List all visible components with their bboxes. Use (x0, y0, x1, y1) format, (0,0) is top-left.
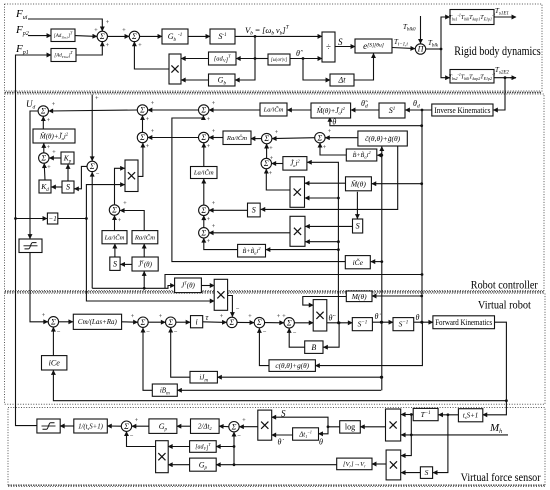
block Jtilde-T(theta) (132, 257, 158, 271)
svg-text:S: S (113, 259, 117, 268)
svg-text:+: + (207, 216, 211, 223)
summing junction SA (97, 31, 107, 41)
block M(theta) (346, 291, 372, 302)
svg-text:+: + (151, 100, 155, 107)
minus sf1 (130, 433, 242, 440)
input label T_blk0 (403, 23, 416, 33)
junctions on x234 (233, 445, 236, 466)
section title Robot controller (471, 277, 538, 291)
wire log branch down to dt1 inverse (319, 427, 329, 434)
block S right (353, 219, 363, 233)
wire theta from x422 into Mhat+J bottom (330, 117, 422, 125)
node label script S 2 (281, 409, 286, 419)
wire sum4c up to sum4b (203, 216, 205, 228)
block iCe 3 (42, 356, 67, 370)
wire x422 to Mhat(theta) (372, 183, 422, 185)
svg-text:+: + (151, 128, 155, 135)
wire x381 to iCe2 (371, 261, 382, 263)
junction after -1 (85, 217, 88, 220)
svg-text:Σ: Σ (40, 107, 46, 116)
block La/iCm 2 (102, 231, 127, 244)
block Gp 2 (190, 458, 217, 471)
block JT(theta) (175, 278, 202, 293)
wire S-1 to divide block, node Vb (235, 35, 322, 37)
block delta t (330, 74, 354, 86)
hatch band between robot controller and virtual robot (5, 291, 545, 293)
svg-text:+: + (47, 117, 51, 124)
wire vertical T-inv junction down to X f4 upper (401, 415, 411, 456)
wire La/iCm to sum r1c (209, 109, 260, 111)
svg-text:i: i (195, 317, 197, 326)
svg-text:+: + (106, 19, 110, 26)
wire force feedback: sat2 out, left vertical up to F_p1 into Ad2 (16, 55, 52, 426)
node label T_blk (428, 39, 439, 49)
junction theta-dd x339 (338, 321, 341, 324)
wire Ra/iCm1 to sum r2c (209, 137, 223, 139)
wire Gp2 to X f2 (168, 464, 189, 466)
plus sv3 (159, 313, 163, 320)
wire H288 to JT(theta) (92, 286, 174, 289)
svg-text:−: − (96, 171, 100, 178)
wire sum4 up to X2 upper input (115, 168, 125, 204)
block iCe 2 (345, 256, 370, 269)
block T inverse (413, 408, 438, 420)
svg-text:+: + (242, 417, 246, 424)
wire H390 to iBm (177, 389, 381, 391)
wire X2 out to sum r2b bottom (138, 143, 143, 176)
wire branch to delta-t (303, 59, 330, 81)
summing junction v2 (138, 317, 148, 327)
wire Tblk down to transform block 2 (441, 49, 450, 78)
plus sf2 (242, 417, 246, 424)
plus r2d (269, 129, 279, 152)
svg-text:Inverse Kinematics: Inverse Kinematics (434, 105, 490, 115)
svg-text:Σ: Σ (200, 133, 206, 142)
section title Virtual robot (478, 298, 532, 312)
wire S f to X f4 lower (401, 472, 420, 474)
wire tf1 to saturation 2 (60, 425, 74, 427)
wire sum f2 to 2/dt2 (219, 425, 229, 428)
gain block Kd (39, 180, 51, 193)
hatch band between rigid body dynamics and robot controller (5, 92, 543, 94)
wire B+B2 to sum4c bottom (204, 238, 238, 249)
wire sum 2a up to M+J block (43, 143, 45, 152)
svg-text:iČe: iČe (353, 257, 364, 267)
wire x381 to B+B upper block (377, 154, 381, 156)
wire Cm/(Las+Ra) to sum v2 (122, 321, 138, 323)
node label theta-dot s3 (375, 312, 382, 321)
block Ra/iCm 1 (223, 131, 251, 145)
wire top into sum3 (91, 95, 93, 161)
wire Vb branch to Gb (235, 59, 255, 81)
wire X4 left out to sum4c (209, 232, 290, 234)
wire sum v4 to sum v5 (237, 321, 254, 323)
junction FK line at H400 (505, 399, 508, 402)
svg-text:Σ: Σ (200, 106, 206, 115)
block -1 (47, 213, 57, 224)
wire S-1a to S-1b theta-dot node (372, 321, 393, 323)
svg-text:Σ: Σ (200, 228, 206, 237)
plus signs at SA (94, 19, 110, 49)
svg-text:+: + (146, 116, 150, 123)
wire sum f1 to tf1 (107, 425, 121, 427)
section frame: Rigid body dynamics boundary (5, 4, 543, 91)
wire c+g to sum v5 bottom (259, 328, 269, 365)
exponential map block e^[S][thu] (355, 39, 392, 53)
transform product block T_s2E2 (449, 70, 496, 84)
block omega-or-v selector (268, 54, 290, 65)
svg-text:M̂(θ): M̂(θ) (350, 178, 366, 188)
block La/iCm mid (191, 167, 218, 179)
svg-text:+: + (212, 100, 216, 107)
svg-text:S: S (252, 206, 256, 215)
wire i block to sum v4 (203, 321, 227, 324)
svg-text:Σ: Σ (231, 422, 237, 431)
block iJm (190, 371, 217, 383)
wire x338 branch to X4 lower (305, 241, 338, 243)
svg-text:−1: −1 (48, 215, 56, 223)
plus r2c (207, 128, 216, 150)
minus sv5 (263, 313, 281, 336)
svg-text:iCe: iCe (49, 359, 61, 368)
junction x381 at 377 (380, 376, 383, 379)
wire Tblk up to transform block 1 (441, 17, 450, 49)
summing junction v4 (227, 317, 237, 327)
svg-text:S: S (356, 222, 360, 231)
plus at SB left (122, 27, 142, 49)
svg-text:Ra/iČm: Ra/iČm (226, 134, 247, 142)
block c(theta,thetadot)+g(theta) hat (358, 131, 407, 146)
svg-text:+: + (207, 238, 211, 245)
junction theta-hat node (302, 57, 305, 60)
summing junction 4c (199, 228, 209, 238)
wire theta-dot H377 to iJm (217, 376, 381, 378)
output label T_s2E2 (495, 66, 509, 76)
wire sum v1 to Cm block (59, 321, 73, 323)
svg-text:S: S (425, 468, 429, 477)
block log (340, 421, 361, 433)
wire T_s2E2 output (494, 77, 516, 79)
wire iCe2 output loop up into sum r1c bottom (172, 116, 345, 262)
block Mtilde(theta)+Ja i2 (33, 129, 75, 143)
node label theta top (332, 118, 336, 127)
wire S right to X4 (305, 225, 352, 227)
summing junction f2 (229, 422, 239, 432)
svg-text:−: − (57, 329, 61, 336)
svg-text:+: + (275, 129, 279, 136)
node label T_i-1,i (394, 38, 408, 48)
block S derivative a (62, 181, 74, 193)
block iBm (152, 384, 177, 396)
block B (305, 341, 323, 354)
junction feeding Jtilde (143, 287, 146, 290)
arrowhead Ts2E2 out (510, 77, 516, 79)
svg-text:+: + (52, 101, 56, 108)
wire B box to sum v6 bottom (289, 328, 305, 347)
svg-text:+: + (95, 95, 99, 102)
summing junction r1c (199, 105, 209, 115)
summing junction 4 (109, 205, 119, 215)
wire saturation to sum v1 (30, 253, 48, 322)
wire x338 branch to B+B2 block (266, 249, 339, 251)
section title Virtual force sensor (461, 470, 541, 484)
wire M(theta) loop into X6 upper (303, 297, 347, 306)
block i (191, 316, 203, 328)
svg-text:Σ: Σ (263, 134, 269, 143)
svg-text:+: + (269, 145, 273, 152)
svg-text:θ: θ (332, 118, 336, 127)
wire S small up to La/iCm 2 (114, 244, 116, 257)
block S mid (248, 203, 261, 217)
svg-text:c(θ,θ̇)+g(θ): c(θ,θ̇)+g(θ) (275, 362, 309, 370)
block S-1 integrator a (352, 318, 372, 331)
wire junction up to X2 lower input (86, 185, 124, 219)
wire sum v5 to sum v6 (265, 322, 284, 324)
block G_b inverse (162, 29, 188, 44)
wire La/iCm2 up to sum4 (114, 216, 116, 231)
svg-text:−: − (293, 330, 297, 337)
block Ra/iCm 2 (132, 231, 158, 244)
wire M+J block up into Ud sum (42, 117, 44, 129)
plus sv2 (131, 313, 135, 320)
junction x422 at y274 (421, 273, 424, 276)
wire X f1 to sum f2 (239, 426, 257, 428)
wire S1 to Mhat+J block (351, 109, 379, 111)
wire X f3 to log (360, 426, 385, 428)
svg-text:+: + (212, 223, 216, 230)
svg-text:S: S (281, 409, 286, 419)
block La/iCm 1 (260, 103, 287, 116)
transform block Ad_Tbs1 transpose (51, 29, 75, 42)
wire X1 to SB bottom (134, 42, 169, 69)
wire theta line up into sum3 bottom (91, 172, 93, 288)
plus s4b (207, 200, 216, 223)
wire T_s1E1 output (494, 16, 516, 18)
wire adV to multiplier X1 (181, 58, 208, 60)
wire 2/dt2 to Gp1 (177, 425, 191, 427)
summing junction v3 (166, 317, 176, 327)
wire Gp1 to sum f1 (132, 425, 149, 427)
block tsS+1 (458, 409, 482, 422)
wire theta vertical x422 (421, 110, 423, 322)
section frame: Robot controller boundary (5, 94, 545, 291)
wire IK to S1 block, node theta_d (405, 109, 431, 111)
plus s2a (47, 144, 57, 171)
output label T_s1E1 (495, 7, 509, 17)
plus smid (270, 155, 274, 162)
block S1 (379, 103, 405, 118)
node label theta s3 (416, 313, 420, 322)
wire T_blk0 into PI top (420, 16, 422, 43)
wire c+g block to sum r2e (325, 137, 358, 139)
plus s4c (207, 223, 216, 245)
svg-text:Σ: Σ (167, 318, 173, 327)
block 2/dt2 (191, 419, 220, 434)
wire Vb down to adV (236, 36, 255, 58)
summing junction 2a (39, 153, 49, 163)
node label theta-ddot (329, 314, 336, 323)
svg-text:+: + (328, 128, 332, 135)
wire S-1b to Forward Kinematics theta node (414, 321, 433, 323)
wire X6 out to S-1 a (327, 322, 353, 324)
gain block Kp (61, 152, 74, 164)
wire Jtilde-T to S small (121, 263, 133, 265)
node Tblk (440, 48, 443, 51)
block c(theta,thetadot)+g(theta) (269, 360, 315, 372)
block S inverse integrator (210, 29, 235, 44)
svg-text:+: + (323, 144, 327, 151)
svg-text:Σ: Σ (263, 159, 269, 168)
svg-text:Ra/iČm: Ra/iČm (134, 233, 155, 241)
wire PI out to node Tblk (426, 48, 441, 50)
wire -1 out to junction (57, 218, 86, 220)
minus sv2 (146, 329, 150, 336)
summing junction v5 (254, 317, 264, 327)
plus smid2 (269, 170, 273, 177)
multiplier X5 (214, 279, 227, 310)
svg-text:+: + (212, 200, 216, 207)
hatch band at bottom of virtual force sensor (8, 484, 545, 486)
block 1/(tsS+1) (74, 419, 108, 433)
wire theta vertical x397 from c+g to S mid (261, 146, 398, 209)
transform block Ad_Tbs2 transpose (51, 49, 76, 62)
multiplier X3 (290, 177, 305, 208)
svg-text:J̃T(θ): J̃T(θ) (138, 259, 152, 268)
node label tau (206, 313, 210, 322)
multiplier Xf1 (258, 410, 272, 440)
svg-text:+: + (212, 128, 216, 135)
block S f (420, 467, 432, 479)
wire Mhat(theta) to X3 (305, 182, 346, 184)
wire theta-dd vertical x338 up to Ja i2 (307, 162, 338, 322)
wire JT to X5 (201, 285, 214, 287)
svg-text:Virtual force sensor: Virtual force sensor (461, 470, 541, 484)
junctions x422 (420, 124, 423, 323)
block dt1 inverse (293, 428, 319, 440)
svg-text:Σ: Σ (317, 133, 323, 142)
wire sum v6 to X6 (295, 322, 314, 324)
summing junction Ud (38, 106, 48, 116)
svg-text:Σ: Σ (123, 422, 129, 431)
plus r1c (207, 100, 216, 123)
wire iCe up to sum v1 bottom (52, 327, 54, 355)
minus sv6 (282, 313, 297, 337)
block Forward Kinematics (433, 316, 495, 329)
section frame: Virtual robot boundary (5, 293, 546, 404)
block Cm/(Las+Ra) (73, 314, 121, 329)
svg-text:+: + (52, 149, 56, 156)
summing junction r2e (315, 133, 325, 143)
wire divide to exponential block (335, 46, 355, 48)
wire sum3 out to S block (74, 166, 86, 188)
svg-text:θ: θ (416, 313, 420, 322)
input label F_ui (15, 8, 28, 21)
svg-text:+: + (248, 313, 252, 320)
wire iBm to sum v2 bottom (143, 328, 152, 390)
svg-text:Σ: Σ (286, 318, 292, 327)
product junction PI (415, 44, 425, 54)
block Bhat+Ba i2 upper (346, 149, 377, 161)
wire Gb to multiplier X1 (181, 79, 208, 81)
wire log out to X f1 upper (272, 417, 340, 427)
svg-text:+: + (159, 313, 163, 320)
node label theta-tilde-d (361, 99, 369, 110)
multiplier X4 (290, 216, 305, 246)
node label theta_d (413, 99, 420, 110)
wire sum r1c to sum r1b (148, 109, 198, 111)
wire tsS+1 to T-inv (439, 414, 459, 416)
wire X f2 to sum f1 bottom (127, 432, 156, 447)
junction theta-dot (380, 321, 383, 324)
summing junction r2b (137, 132, 147, 142)
wire M_h into X f3 lower (401, 434, 508, 436)
multiplier Xf2 (156, 441, 169, 473)
svg-text:÷: ÷ (326, 42, 331, 52)
wire delta-t up into exponential block (354, 54, 374, 81)
wire x422 to M(theta) (372, 295, 422, 297)
svg-text:−: − (237, 433, 241, 440)
wire T-inv to X f3 upper (401, 414, 413, 416)
wire X3 to sum mid bottom (266, 169, 290, 190)
wire adV2 to X f2 (168, 446, 189, 448)
wire exponential to product PI (392, 48, 415, 49)
wire H400 feedback into iCe3 (53, 370, 506, 400)
svg-text:+: + (131, 313, 135, 320)
summing junction 4b (199, 205, 209, 215)
node label theta-dot s4 (278, 438, 285, 447)
wire sum r1b to sum Ud (49, 110, 137, 111)
wire branch to adV2 (216, 446, 234, 448)
minus sv3 (174, 329, 178, 336)
multiplier Xf3 (386, 409, 401, 441)
summing junction mid (261, 158, 271, 168)
wire x338 branch to X3 lower (305, 197, 338, 199)
wire F_p2 input (28, 35, 51, 37)
wire B+B block to sum r2e bottom (320, 143, 346, 155)
svg-text:Σ: Σ (40, 154, 46, 163)
svg-text:+: + (123, 200, 127, 207)
svg-text:log: log (345, 423, 355, 432)
svg-text:−: − (174, 329, 178, 336)
summing junction r2c (199, 132, 209, 142)
summing junction v1 (48, 317, 58, 327)
section title Rigid body dynamics (454, 44, 540, 58)
summing junction SB (129, 31, 139, 41)
wire Mhat(theta) bottom down into S right (356, 192, 358, 219)
svg-text:−: − (263, 329, 267, 336)
svg-text:−: − (236, 306, 240, 313)
block S-1 integrator b (393, 318, 414, 331)
wire Ad2 to SA bottom (76, 42, 102, 55)
svg-text:Forward Kinematics: Forward Kinematics (435, 317, 492, 327)
node label U_d (26, 99, 36, 111)
svg-text:+: + (135, 417, 139, 424)
svg-text:Σ: Σ (140, 318, 146, 327)
wire sum r2e to sum r2d (272, 137, 314, 140)
wire sum v3 to i block (176, 321, 190, 323)
svg-text:Σ: Σ (111, 206, 117, 215)
node label V_b equation (245, 25, 290, 37)
svg-text:Rigid body dynamics: Rigid body dynamics (454, 44, 540, 58)
svg-text:+: + (47, 144, 51, 151)
svg-text:+: + (42, 312, 46, 319)
svg-text:B: B (311, 343, 316, 352)
svg-text:+: + (277, 313, 281, 320)
wire theta-dot vertical x381 from c+g block (381, 147, 383, 391)
svg-text:+: + (118, 217, 122, 224)
node label theta-hat (296, 49, 303, 58)
summing junction v6 (284, 318, 294, 328)
